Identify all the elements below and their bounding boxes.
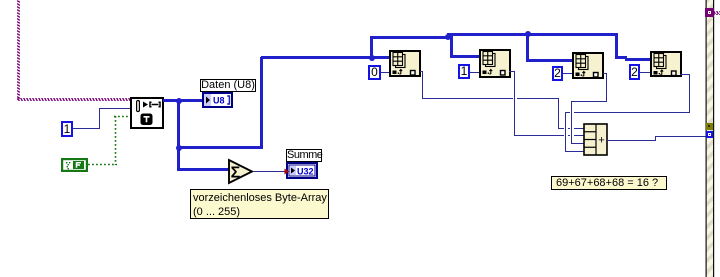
wire riser constant 1 xyxy=(99,108,100,129)
wire thin sigma to U32 xyxy=(253,171,286,172)
wire W4 back left xyxy=(565,112,690,113)
wire W3 drop xyxy=(606,73,607,101)
wire W1 across xyxy=(422,98,559,99)
wire thick bottom to sigma xyxy=(177,168,230,171)
wire boolean dotted into function bottom input xyxy=(114,115,131,118)
wire thick vertical down from junction A xyxy=(177,100,180,171)
junction dot A xyxy=(176,98,182,104)
numeric constant 1 xyxy=(61,121,73,137)
wire W4 node4 output xyxy=(680,74,690,75)
junction dot B xyxy=(176,145,182,151)
wire string vertical (purple squiggle left edge) xyxy=(17,0,20,100)
index array node 2 xyxy=(479,49,511,78)
label Summe xyxy=(286,149,322,162)
junction dot D xyxy=(445,34,451,40)
wire thick jog to node4 xyxy=(615,56,627,59)
wire thick riser x371 xyxy=(370,37,373,59)
function block string-to-byte-array U1 xyxy=(130,97,164,129)
numeric constant 2a xyxy=(552,66,563,81)
wire W3 node3 output xyxy=(603,73,607,74)
numeric constant 2b xyxy=(629,64,640,80)
wire thick drop to node2 xyxy=(450,34,453,58)
indicator terminal U8 array xyxy=(202,92,233,108)
comment vorzeichenloses Byte-Array xyxy=(190,189,329,219)
wire thick from junction B right xyxy=(178,146,263,149)
wire from constant 1 xyxy=(73,128,100,129)
wire thick into node4 xyxy=(625,58,650,61)
compound arithmetic adder xyxy=(583,123,608,156)
wire adder output xyxy=(607,140,656,141)
wire thick top over to node1 xyxy=(261,56,390,59)
wire thick rail segment 1 xyxy=(370,36,449,39)
wire W1 drop xyxy=(422,71,423,99)
wire thick riser x262 xyxy=(260,57,263,149)
svg-text:+: + xyxy=(598,135,604,147)
wire W4 into adder input4 xyxy=(565,151,584,152)
index array node 4 xyxy=(650,51,682,77)
wire const 2a to node3 xyxy=(563,73,572,74)
wire crossing gaps xyxy=(564,128,566,129)
wire W2 into adder input2 xyxy=(514,135,584,136)
index array node 3 xyxy=(572,52,604,79)
wire W4 drop2 xyxy=(565,112,566,152)
wire boolean dotted horizontal from F xyxy=(88,163,117,166)
wire thick array from function output to U8 terminal xyxy=(163,99,203,102)
wire thick drop to node4 xyxy=(615,34,618,58)
numeric constant 0 xyxy=(368,65,381,80)
wire adder output jog xyxy=(655,136,656,141)
wire W1 into adder input1 xyxy=(558,128,584,129)
wire thick into node3 xyxy=(526,59,572,62)
tunnel blue (adder output) xyxy=(706,131,714,139)
tunnel string (purple) top right xyxy=(705,8,714,17)
wire string horizontal to function input xyxy=(17,98,130,101)
indicator terminal U32 xyxy=(284,162,318,179)
index array node 1 xyxy=(389,50,421,77)
wire thick drop to node3 xyxy=(526,33,529,61)
wire const 1b to node2 xyxy=(470,72,479,73)
wire thick rail segment 2 xyxy=(447,33,618,36)
wire boolean dotted vertical xyxy=(114,116,117,165)
tunnel olive xyxy=(706,123,713,130)
wire W3 back left xyxy=(571,101,607,102)
wire W2 node2 output xyxy=(509,71,515,72)
numeric constant 1b xyxy=(458,64,470,79)
svg-text:U8: U8 xyxy=(213,96,225,106)
wire W1 drop2 xyxy=(558,98,559,129)
wire W1 node1 output xyxy=(420,71,423,72)
wire W4 drop xyxy=(689,74,690,113)
wire thick into node2 xyxy=(450,55,479,58)
wire const 0 to node1 xyxy=(381,72,389,73)
wire adder output to tunnel xyxy=(655,136,706,137)
boolean constant F xyxy=(61,158,88,172)
wire string squiggle from tunnel xyxy=(713,11,720,15)
wire W2 drop xyxy=(514,71,515,135)
junction dot C xyxy=(369,55,375,61)
add array elements sigma xyxy=(227,158,255,185)
label Daten (U8) xyxy=(200,79,256,92)
wire const 2b to node4 xyxy=(640,72,650,73)
junction dot E xyxy=(525,31,531,37)
comment sum check xyxy=(551,176,667,190)
svg-text:Σ: Σ xyxy=(231,165,241,182)
svg-text:U32: U32 xyxy=(297,167,314,177)
wire W3 into adder input3 xyxy=(571,143,584,144)
wire into function middle input xyxy=(99,108,130,109)
wire W3 drop2 xyxy=(571,101,572,144)
structure border striped bar xyxy=(705,0,715,277)
